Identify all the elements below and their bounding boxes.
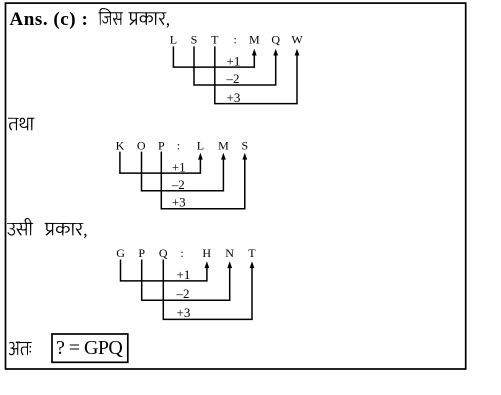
svg-text:+3: +3 (177, 305, 191, 320)
svg-text:M: M (218, 138, 229, 152)
svg-text:L: L (170, 33, 177, 47)
wire P to S d2 (161, 152, 245, 209)
arrowhead at L d2 (198, 153, 203, 160)
svg-text:P: P (138, 246, 145, 260)
svg-text:Q: Q (159, 246, 168, 260)
svg-text:–2: –2 (171, 177, 185, 192)
hindi text "jis prakar," (98, 8, 169, 28)
svg-text:O: O (137, 138, 146, 152)
arrowhead at M d2 (221, 153, 226, 160)
svg-text::: : (180, 246, 183, 260)
svg-text:S: S (241, 138, 248, 152)
svg-text:–2: –2 (226, 71, 240, 86)
svg-text:M: M (249, 33, 260, 47)
arrowhead at N d3 (227, 261, 232, 268)
wire T to W d1 (215, 46, 297, 103)
wire K to L d2 (120, 152, 200, 174)
svg-text:T: T (211, 33, 219, 47)
svg-text:H: H (202, 246, 211, 260)
svg-text:K: K (116, 138, 125, 152)
svg-text:T: T (248, 246, 256, 260)
svg-text:+1: +1 (177, 267, 191, 282)
answer box (52, 334, 128, 362)
svg-text:+1: +1 (227, 54, 241, 69)
svg-text:S: S (191, 33, 198, 47)
hindi text "atah" (9, 342, 32, 356)
svg-text:? = GPQ: ? = GPQ (56, 337, 123, 359)
svg-text:–2: –2 (176, 286, 190, 301)
arrowhead at H d3 (205, 261, 210, 268)
svg-text:N: N (225, 246, 234, 260)
svg-text:Q: Q (271, 33, 280, 47)
wire S to Q d1 (194, 46, 276, 85)
svg-text::: : (234, 33, 237, 47)
svg-text:W: W (291, 33, 303, 47)
arrowhead at Q d1 (273, 49, 278, 56)
wire L to M d1 (173, 46, 254, 67)
wire G to H d3 (121, 260, 207, 281)
arrowhead at W d1 (295, 49, 300, 56)
arrowhead at M d1 (252, 49, 257, 56)
svg-text:G: G (116, 246, 125, 260)
svg-text::: : (177, 138, 180, 152)
svg-text:+3: +3 (172, 194, 186, 209)
arrowhead at T d3 (250, 261, 255, 268)
hindi text "tatha" (8, 118, 34, 131)
svg-text:P: P (158, 138, 165, 152)
svg-text:+1: +1 (172, 159, 186, 174)
wire P to N d3 (142, 260, 230, 301)
wire Q to T d3 (163, 260, 252, 320)
arrowhead at S d2 (242, 153, 247, 160)
svg-text:L: L (197, 138, 204, 152)
wire O to M d2 (142, 152, 224, 191)
svg-text:Ans. (c) :: Ans. (c) : (10, 9, 89, 30)
svg-text:+3: +3 (227, 90, 241, 105)
hindi text "usi prakar," (7, 218, 87, 238)
